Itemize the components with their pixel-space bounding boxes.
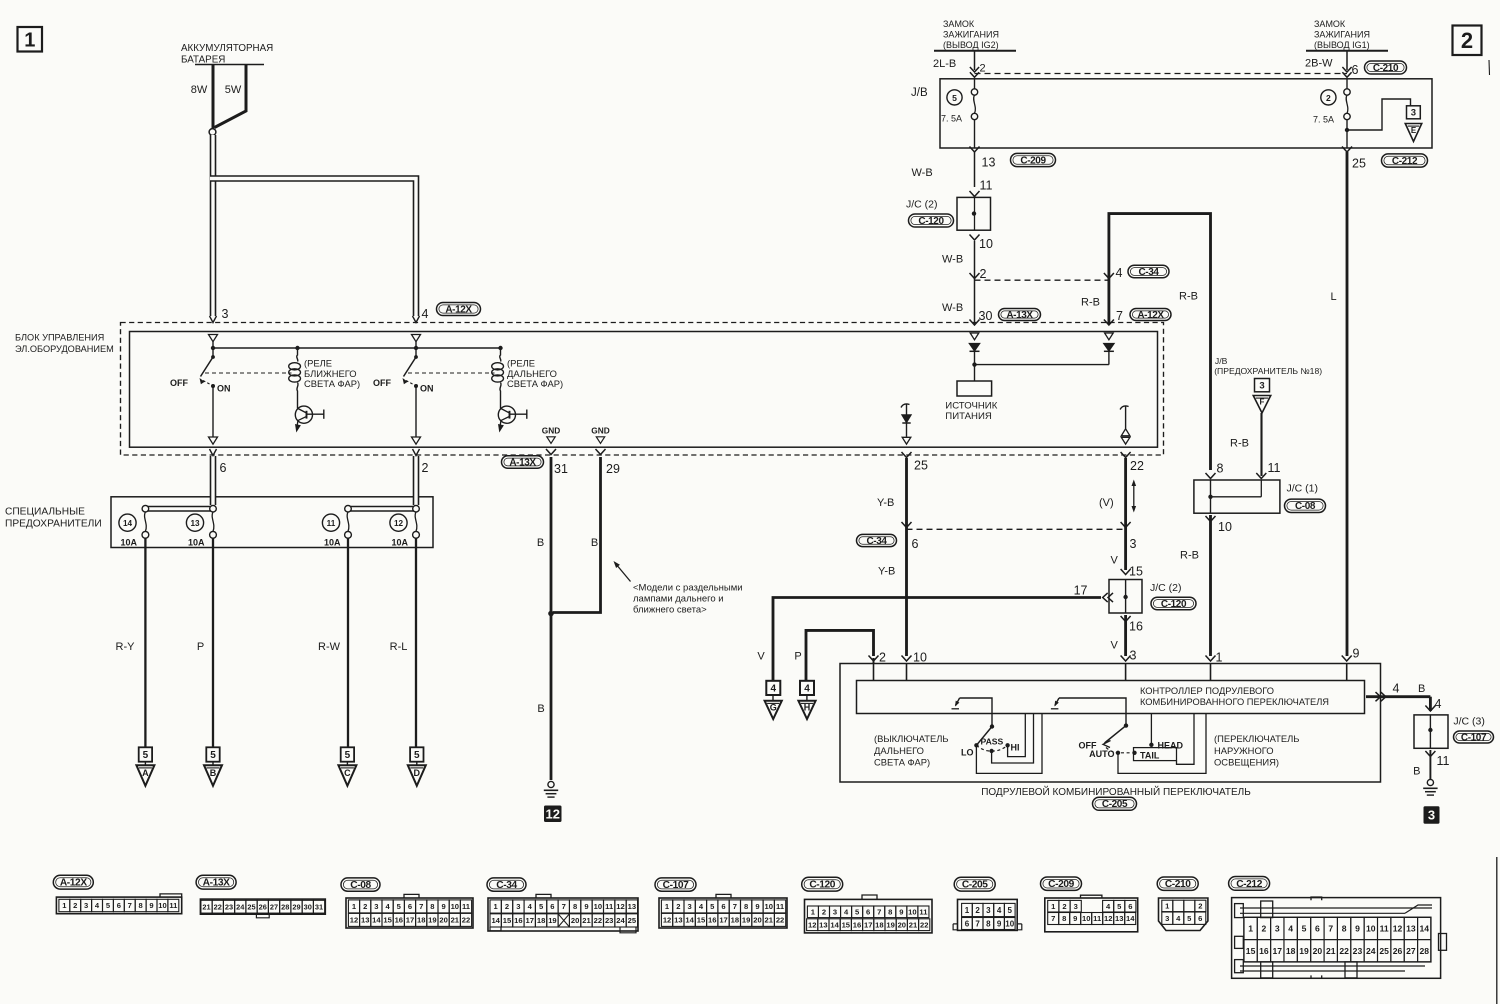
svg-text:11: 11	[1437, 754, 1450, 768]
svg-text:7. 5A: 7. 5A	[941, 114, 962, 124]
svg-text:5: 5	[210, 750, 216, 761]
svg-text:10: 10	[1218, 520, 1232, 534]
svg-text:Y-B: Y-B	[877, 497, 894, 509]
svg-text:24: 24	[616, 916, 625, 925]
svg-text:БЛОК УПРАВЛЕНИЯ: БЛОК УПРАВЛЕНИЯ	[15, 333, 104, 343]
svg-text:ЗАЖИГАНИЯ: ЗАЖИГАНИЯ	[1314, 30, 1370, 40]
svg-text:J/C (2): J/C (2)	[1150, 582, 1182, 594]
svg-text:2: 2	[1262, 923, 1267, 933]
svg-text:Y-B: Y-B	[878, 566, 895, 578]
svg-text:7. 5A: 7. 5A	[1313, 115, 1334, 125]
svg-text:C-08: C-08	[1295, 501, 1316, 512]
svg-text:3: 3	[1275, 923, 1280, 933]
svg-text:PASS: PASS	[981, 737, 1004, 747]
svg-text:C-107: C-107	[663, 880, 689, 891]
svg-text:11: 11	[169, 901, 178, 910]
svg-text:9: 9	[1353, 647, 1360, 661]
svg-text:12: 12	[663, 916, 671, 925]
svg-text:17: 17	[406, 916, 414, 925]
svg-text:HEAD: HEAD	[1158, 741, 1184, 751]
svg-text:G: G	[770, 702, 777, 712]
svg-text:C-120: C-120	[918, 216, 944, 227]
svg-text:19: 19	[548, 916, 556, 925]
svg-text:10: 10	[451, 902, 459, 911]
svg-text:23: 23	[605, 916, 613, 925]
svg-text:20: 20	[753, 916, 761, 925]
svg-text:R-Y: R-Y	[116, 641, 136, 653]
svg-text:J/C (1): J/C (1)	[1287, 483, 1319, 495]
svg-text:B: B	[1413, 766, 1420, 778]
svg-text:13: 13	[819, 920, 827, 929]
svg-text:7: 7	[733, 902, 737, 911]
svg-text:2: 2	[1062, 902, 1066, 911]
svg-text:ON: ON	[217, 384, 231, 394]
svg-text:ПОДРУЛЕВОЙ КОМБИНИРОВАННЫЙ ПЕР: ПОДРУЛЕВОЙ КОМБИНИРОВАННЫЙ ПЕРЕКЛЮЧАТЕЛЬ	[981, 785, 1251, 798]
svg-text:AUTO: AUTO	[1089, 749, 1114, 759]
svg-text:14: 14	[372, 916, 381, 925]
svg-text:11: 11	[980, 179, 993, 193]
svg-text:W-B: W-B	[942, 302, 963, 314]
svg-text:15: 15	[383, 916, 392, 925]
svg-text:C-34: C-34	[866, 536, 887, 547]
svg-text:16: 16	[395, 916, 403, 925]
svg-text:8: 8	[139, 901, 143, 910]
svg-text:22: 22	[462, 916, 470, 925]
svg-text:C-107: C-107	[1461, 732, 1487, 743]
svg-text:8: 8	[986, 919, 991, 928]
svg-text:22: 22	[594, 916, 602, 925]
svg-text:21: 21	[582, 916, 591, 925]
svg-text:23: 23	[225, 902, 233, 911]
svg-text:10: 10	[594, 902, 602, 911]
svg-text:L: L	[1331, 291, 1337, 303]
svg-text:C-120: C-120	[1161, 599, 1187, 610]
svg-text:ПИТАНИЯ: ПИТАНИЯ	[945, 411, 992, 422]
svg-text:C-209: C-209	[1020, 155, 1046, 166]
svg-text:C-209: C-209	[1048, 879, 1074, 890]
svg-text:6: 6	[1315, 923, 1320, 933]
svg-text:17: 17	[864, 920, 872, 929]
svg-text:3: 3	[516, 902, 520, 911]
svg-text:C-120: C-120	[809, 880, 835, 891]
svg-text:R-B: R-B	[1180, 550, 1199, 562]
svg-text:12: 12	[616, 902, 624, 911]
svg-text:2L-B: 2L-B	[933, 58, 956, 70]
svg-text:A-13X: A-13X	[1006, 310, 1033, 321]
svg-text:3: 3	[986, 906, 991, 915]
svg-text:10: 10	[908, 907, 916, 916]
svg-text:2: 2	[1461, 28, 1473, 53]
svg-text:11: 11	[462, 902, 471, 911]
svg-text:(ПРЕДОХРАНИТЕЛЬ №18): (ПРЕДОХРАНИТЕЛЬ №18)	[1214, 366, 1322, 376]
svg-text:6: 6	[220, 461, 227, 475]
svg-text:8: 8	[744, 902, 748, 911]
svg-text:11: 11	[776, 902, 785, 911]
svg-text:10A: 10A	[120, 538, 137, 548]
svg-text:25: 25	[914, 459, 928, 473]
svg-text:HI: HI	[1011, 743, 1020, 753]
svg-text:4: 4	[771, 683, 777, 694]
svg-text:1: 1	[24, 29, 35, 51]
svg-text:W-B: W-B	[912, 167, 933, 179]
svg-text:23: 23	[1353, 946, 1363, 956]
svg-text:ЗАМОК: ЗАМОК	[1314, 19, 1346, 29]
svg-text:10A: 10A	[324, 538, 341, 548]
svg-text:2: 2	[975, 906, 980, 915]
svg-text:КОНТРОЛЛЕР ПОДРУЛЕВОГО: КОНТРОЛЛЕР ПОДРУЛЕВОГО	[1140, 686, 1274, 696]
svg-text:LO: LO	[961, 748, 974, 758]
svg-text:B: B	[210, 768, 217, 778]
svg-text:26: 26	[259, 902, 267, 911]
svg-text:13: 13	[982, 156, 996, 170]
svg-text:C-210: C-210	[1373, 63, 1399, 74]
svg-text:V: V	[757, 651, 765, 663]
svg-text:2: 2	[980, 63, 986, 75]
svg-text:28: 28	[281, 902, 289, 911]
svg-text:B: B	[537, 537, 544, 549]
svg-text:R-L: R-L	[390, 641, 408, 653]
svg-text:9: 9	[441, 902, 445, 911]
svg-text:3: 3	[222, 307, 229, 321]
svg-text:C-34: C-34	[1138, 267, 1159, 278]
svg-text:7: 7	[1116, 309, 1123, 323]
svg-text:A-13X: A-13X	[509, 457, 536, 468]
svg-text:GND: GND	[542, 426, 560, 436]
svg-text:D: D	[414, 768, 421, 778]
svg-text:11: 11	[919, 907, 928, 916]
svg-text:13: 13	[1115, 914, 1123, 923]
svg-text:3: 3	[1259, 380, 1264, 391]
svg-text:18: 18	[1286, 946, 1296, 956]
svg-text:6: 6	[408, 902, 412, 911]
svg-text:(ВЫВОД IG1): (ВЫВОД IG1)	[1314, 40, 1370, 50]
svg-text:10A: 10A	[188, 538, 205, 548]
svg-text:ПРЕДОХРАНИТЕЛИ: ПРЕДОХРАНИТЕЛИ	[5, 519, 102, 530]
svg-text:TAIL: TAIL	[1140, 750, 1160, 760]
svg-text:25: 25	[628, 916, 637, 925]
svg-text:W-B: W-B	[942, 254, 963, 266]
svg-text:18: 18	[731, 916, 739, 925]
svg-text:12: 12	[350, 916, 358, 925]
svg-text:20: 20	[571, 916, 579, 925]
svg-text:R-B: R-B	[1081, 297, 1100, 309]
svg-text:2: 2	[505, 902, 509, 911]
svg-text:(ВЫКЛЮЧАТЕЛЬ: (ВЫКЛЮЧАТЕЛЬ	[874, 733, 949, 744]
svg-text:3: 3	[1428, 808, 1435, 823]
svg-text:R-B: R-B	[1230, 438, 1249, 450]
svg-text:12: 12	[394, 519, 404, 528]
svg-text:2: 2	[1198, 902, 1202, 911]
svg-text:13: 13	[361, 916, 369, 925]
svg-text:R-B: R-B	[1179, 291, 1198, 303]
svg-text:1: 1	[1216, 651, 1223, 665]
svg-text:2B-W: 2B-W	[1305, 58, 1333, 70]
svg-text:14: 14	[123, 519, 133, 528]
svg-text:ОСВЕЩЕНИЯ): ОСВЕЩЕНИЯ)	[1214, 757, 1279, 768]
svg-text:OFF: OFF	[170, 378, 188, 388]
svg-text:14: 14	[1419, 923, 1429, 933]
svg-text:10: 10	[1366, 923, 1376, 933]
svg-text:29: 29	[606, 462, 620, 476]
svg-text:C: C	[344, 768, 351, 778]
svg-text:GND: GND	[591, 426, 609, 436]
svg-text:2: 2	[363, 902, 367, 911]
svg-text:СВЕТА ФАР): СВЕТА ФАР)	[304, 378, 360, 389]
svg-text:ДАЛЬНЕГО: ДАЛЬНЕГО	[874, 745, 924, 756]
svg-text:25: 25	[247, 902, 255, 911]
svg-text:8W: 8W	[191, 84, 208, 96]
svg-text:9: 9	[584, 902, 588, 911]
svg-text:27: 27	[1406, 946, 1416, 956]
svg-text:30: 30	[304, 902, 312, 911]
svg-text:R-W: R-W	[318, 641, 341, 653]
svg-text:9: 9	[149, 901, 153, 910]
svg-text:(ВЫВОД IG2): (ВЫВОД IG2)	[943, 40, 999, 50]
svg-text:30: 30	[979, 309, 993, 323]
svg-text:14: 14	[830, 920, 839, 929]
svg-text:J/C (3): J/C (3)	[1453, 716, 1485, 728]
svg-text:7: 7	[1051, 914, 1055, 923]
svg-text:1: 1	[965, 906, 970, 915]
svg-text:2: 2	[1326, 93, 1331, 103]
svg-text:E: E	[1411, 126, 1417, 135]
svg-text:C-08: C-08	[350, 880, 371, 891]
svg-text:6: 6	[117, 901, 121, 910]
svg-text:ЗАЖИГАНИЯ: ЗАЖИГАНИЯ	[943, 30, 999, 40]
svg-text:7: 7	[419, 902, 423, 911]
svg-text:15: 15	[1246, 946, 1256, 956]
svg-text:13: 13	[190, 519, 200, 528]
svg-text:8: 8	[573, 902, 577, 911]
svg-text:17: 17	[525, 916, 533, 925]
svg-text:9: 9	[1355, 923, 1360, 933]
svg-text:10: 10	[158, 901, 166, 910]
svg-text:11: 11	[1268, 461, 1281, 475]
svg-text:B: B	[1418, 683, 1425, 695]
svg-text:КОМБИНИРОВАННОГО ПЕРЕКЛЮЧАТЕЛЯ: КОМБИНИРОВАННОГО ПЕРЕКЛЮЧАТЕЛЯ	[1140, 697, 1329, 707]
svg-text:21: 21	[909, 920, 918, 929]
svg-text:8: 8	[888, 907, 892, 916]
svg-text:J/B: J/B	[1215, 356, 1228, 366]
svg-text:19: 19	[886, 920, 894, 929]
svg-text:СВЕТА ФАР): СВЕТА ФАР)	[874, 757, 930, 768]
svg-text:20: 20	[439, 916, 447, 925]
svg-text:10A: 10A	[391, 538, 408, 548]
svg-text:5W: 5W	[225, 84, 242, 96]
svg-text:12: 12	[808, 920, 816, 929]
svg-text:6: 6	[550, 902, 554, 911]
svg-text:12: 12	[1393, 923, 1403, 933]
svg-text:3: 3	[1130, 537, 1137, 551]
svg-text:29: 29	[292, 902, 300, 911]
svg-text:11: 11	[605, 902, 614, 911]
svg-text:4: 4	[1435, 697, 1442, 711]
svg-text:C-210: C-210	[1165, 879, 1191, 890]
svg-text:21: 21	[765, 916, 774, 925]
svg-text:16: 16	[853, 920, 861, 929]
svg-text:OFF: OFF	[373, 378, 391, 388]
svg-text:6: 6	[912, 537, 919, 551]
svg-text:1: 1	[1248, 923, 1253, 933]
svg-text:18: 18	[417, 916, 425, 925]
svg-text:21: 21	[202, 902, 210, 911]
svg-text:9: 9	[755, 902, 759, 911]
svg-text:28: 28	[1419, 946, 1429, 956]
svg-text:17: 17	[719, 916, 727, 925]
svg-text:16: 16	[514, 916, 522, 925]
svg-text:22: 22	[1130, 459, 1144, 473]
svg-text:C-212: C-212	[1236, 879, 1262, 890]
svg-text:A: A	[142, 768, 149, 778]
svg-text:2: 2	[822, 907, 826, 916]
svg-text:14: 14	[491, 916, 500, 925]
svg-text:АККУМУЛЯТОРНАЯ: АККУМУЛЯТОРНАЯ	[181, 43, 273, 54]
svg-text:6: 6	[1352, 63, 1359, 77]
svg-text:31: 31	[315, 902, 323, 911]
svg-text:3: 3	[1411, 108, 1416, 119]
svg-text:6: 6	[1198, 914, 1202, 923]
svg-text:19: 19	[742, 916, 750, 925]
svg-text:C-34: C-34	[496, 880, 517, 891]
svg-text:V: V	[1111, 640, 1119, 652]
svg-text:F: F	[1260, 398, 1265, 407]
svg-text:25: 25	[1352, 157, 1366, 171]
svg-text:5: 5	[143, 750, 149, 761]
svg-text:11: 11	[327, 519, 336, 528]
svg-text:4: 4	[1116, 266, 1123, 280]
svg-text:ЭЛ.ОБОРУДОВАНИЕМ: ЭЛ.ОБОРУДОВАНИЕМ	[15, 344, 114, 354]
svg-text:(V): (V)	[1099, 497, 1114, 509]
svg-text:17: 17	[1074, 584, 1088, 598]
svg-text:12: 12	[546, 806, 560, 821]
svg-text:11: 11	[1093, 914, 1102, 923]
svg-text:8: 8	[1062, 914, 1066, 923]
svg-text:6: 6	[721, 902, 725, 911]
svg-text:СВЕТА ФАР): СВЕТА ФАР)	[507, 378, 563, 389]
svg-text:4: 4	[1393, 682, 1400, 696]
svg-text:21: 21	[1326, 946, 1336, 956]
svg-text:J/C (2): J/C (2)	[906, 199, 938, 211]
svg-text:5: 5	[952, 93, 957, 103]
svg-text:8: 8	[1342, 923, 1347, 933]
svg-text:A-12X: A-12X	[445, 304, 472, 315]
svg-text:2: 2	[73, 901, 77, 910]
svg-text:5: 5	[345, 750, 351, 761]
svg-text:C-205: C-205	[1102, 799, 1128, 810]
svg-text:16: 16	[1259, 946, 1269, 956]
svg-text:18: 18	[875, 920, 883, 929]
svg-text:5: 5	[1302, 923, 1307, 933]
svg-text:9: 9	[1073, 914, 1077, 923]
svg-text:14: 14	[1126, 914, 1135, 923]
svg-text:P: P	[197, 641, 204, 653]
svg-text:4: 4	[997, 906, 1002, 915]
svg-text:14: 14	[685, 916, 694, 925]
svg-text:4: 4	[804, 683, 810, 694]
svg-text:7: 7	[877, 907, 881, 916]
svg-text:15: 15	[503, 916, 512, 925]
svg-text:<Модели с раздельными: <Модели с раздельными	[633, 583, 743, 594]
svg-text:P: P	[794, 651, 801, 663]
svg-text:10: 10	[913, 651, 927, 665]
svg-text:7: 7	[1328, 923, 1333, 933]
svg-text:20: 20	[898, 920, 906, 929]
svg-text:5: 5	[1008, 906, 1013, 915]
svg-text:J/B: J/B	[911, 87, 928, 99]
svg-text:2: 2	[422, 461, 429, 475]
svg-text:3: 3	[1165, 914, 1169, 923]
svg-text:22: 22	[920, 920, 928, 929]
svg-text:31: 31	[554, 462, 568, 476]
svg-text:ON: ON	[420, 384, 434, 394]
svg-text:A-12X: A-12X	[1137, 310, 1164, 321]
svg-text:17: 17	[1273, 946, 1283, 956]
svg-text:13: 13	[628, 902, 636, 911]
svg-text:16: 16	[708, 916, 716, 925]
svg-text:15: 15	[1129, 565, 1143, 579]
svg-text:ближнего света>: ближнего света>	[633, 605, 707, 616]
svg-text:22: 22	[1339, 946, 1349, 956]
svg-text:2: 2	[879, 651, 886, 665]
svg-text:9: 9	[899, 907, 903, 916]
svg-text:11: 11	[1380, 923, 1389, 933]
svg-text:21: 21	[451, 916, 460, 925]
svg-text:4: 4	[422, 307, 429, 321]
svg-text:10: 10	[979, 237, 993, 251]
svg-text:H: H	[804, 702, 811, 712]
svg-text:16: 16	[1129, 620, 1143, 634]
svg-text:3: 3	[833, 907, 837, 916]
svg-text:8: 8	[430, 902, 434, 911]
svg-text:A-12X: A-12X	[60, 878, 87, 889]
svg-text:10: 10	[1082, 914, 1090, 923]
svg-text:7: 7	[562, 902, 566, 911]
svg-text:19: 19	[428, 916, 436, 925]
svg-text:15: 15	[697, 916, 706, 925]
svg-text:лампами дальнего и: лампами дальнего и	[633, 594, 724, 605]
svg-text:ИСТОЧНИК: ИСТОЧНИК	[945, 401, 997, 412]
svg-text:24: 24	[1366, 946, 1376, 956]
svg-text:СПЕЦИАЛЬНЫЕ: СПЕЦИАЛЬНЫЕ	[5, 507, 85, 518]
svg-text:10: 10	[1005, 919, 1014, 928]
svg-text:4: 4	[1288, 923, 1293, 933]
svg-text:6: 6	[965, 919, 970, 928]
svg-text:3: 3	[84, 901, 88, 910]
svg-text:7: 7	[128, 901, 132, 910]
svg-text:25: 25	[1379, 946, 1389, 956]
svg-text:2: 2	[676, 902, 680, 911]
svg-text:9: 9	[997, 919, 1002, 928]
svg-text:B: B	[591, 537, 598, 549]
svg-text:B: B	[537, 703, 544, 715]
svg-text:8: 8	[1217, 462, 1224, 476]
svg-text:22: 22	[214, 902, 222, 911]
svg-text:6: 6	[1128, 902, 1132, 911]
svg-text:ЗАМОК: ЗАМОК	[943, 19, 975, 29]
svg-text:A-13X: A-13X	[203, 878, 230, 889]
svg-text:5: 5	[414, 750, 420, 761]
svg-text:19: 19	[1299, 946, 1309, 956]
svg-text:20: 20	[1313, 946, 1323, 956]
svg-text:7: 7	[975, 919, 980, 928]
svg-text:6: 6	[866, 907, 870, 916]
svg-text:13: 13	[674, 916, 682, 925]
svg-text:3: 3	[688, 902, 692, 911]
svg-text:22: 22	[776, 916, 784, 925]
svg-text:(ПЕРЕКЛЮЧАТЕЛЬ: (ПЕРЕКЛЮЧАТЕЛЬ	[1214, 733, 1299, 744]
svg-text:2: 2	[980, 267, 987, 281]
svg-text:27: 27	[270, 902, 278, 911]
